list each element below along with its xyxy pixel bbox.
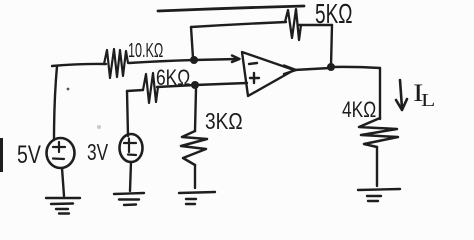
ground (below 3K) [179, 192, 215, 204]
resistor R1 10K zigzag [104, 49, 128, 78]
wire (3V branch vertical) [127, 91, 128, 136]
resistor R4 3K zigzag [181, 131, 207, 165]
pen dot [67, 88, 70, 91]
wire (junction to op-amp inverting input, with arrowhead) [194, 56, 240, 63]
ground (below 5V) [46, 198, 80, 214]
wire (5V branch vertical) [54, 66, 57, 140]
wire (3V to ground) [130, 162, 131, 191]
wire (5V to ground) [62, 168, 64, 196]
node (output) [327, 63, 335, 71]
ground (below 3V) [114, 193, 144, 205]
op-amp U1 triangle [242, 52, 294, 96]
current arrow IL [396, 80, 407, 110]
scan mark (left edge) [0, 138, 3, 172]
source V1 5V circle [47, 138, 75, 168]
wire (junction to op-amp non-inverting input) [195, 83, 247, 85]
wire (6K to non-inverting junction) [157, 85, 195, 87]
op-amp output arrowhead [284, 66, 296, 75]
svg-text:5KΩ: 5KΩ [315, 0, 353, 30]
wire (output node to right corner) [331, 67, 380, 68]
source V1 minus marker [53, 157, 64, 160]
wire (op-amp output to node) [294, 68, 330, 70]
resistor R2 5K zigzag [285, 9, 301, 40]
op-amp non-inverting (+) marker [250, 73, 259, 83]
source V2 3V circle [120, 134, 143, 162]
ground (below 4K) [358, 189, 400, 201]
wire (6K left stub and corner) [127, 90, 143, 91]
wire (feedback vertical right) [331, 25, 332, 66]
svg-text:3V: 3V [87, 141, 108, 166]
wire (feedback top left segment) [191, 22, 286, 27]
source V2 minus marker [128, 153, 136, 156]
wire (feedback top right segment) [299, 24, 332, 26]
resistor R5 4K zigzag [359, 118, 398, 147]
svg-text:6KΩ: 6KΩ [156, 66, 190, 90]
wire (3K to ground) [194, 165, 196, 188]
wire (stray line top) [158, 6, 304, 11]
svg-text:10.KΩ: 10.KΩ [128, 39, 163, 62]
source V1 plus marker [53, 142, 65, 152]
node (inverting input junction) [190, 56, 198, 64]
source V2 plus marker [124, 139, 136, 153]
svg-text:L: L [421, 90, 435, 111]
faint smudge dot [97, 125, 101, 129]
wire (10K to inverting junction) [129, 60, 194, 63]
svg-text:5V: 5V [17, 141, 41, 169]
wire (4K to ground) [376, 147, 378, 186]
wire (feedback vertical left) [191, 27, 193, 58]
wire (left top horizontal to 10K) [52, 64, 106, 66]
op-amp inverting (-) marker [249, 63, 257, 64]
resistor R3 6K zigzag [143, 73, 158, 103]
wire (3K branch vertical from junction) [195, 89, 196, 131]
svg-text:4KΩ: 4KΩ [342, 98, 376, 122]
node (non-inverting input junction) [191, 81, 199, 89]
wire (right vertical down to 4K) [379, 68, 381, 119]
svg-text:3KΩ: 3KΩ [205, 109, 243, 134]
